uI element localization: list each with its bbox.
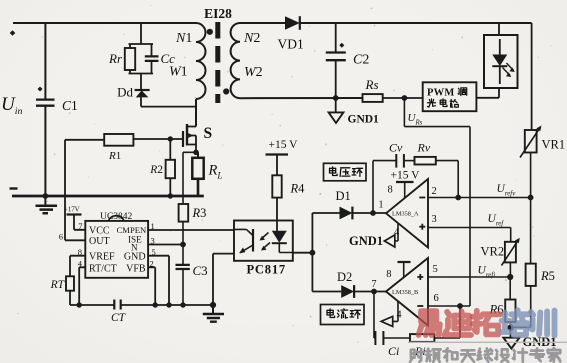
- wire Urefv to R5: [530, 198, 532, 264]
- wire pin2 VFB to bottom rail: [148, 267, 155, 305]
- svg-text:7: 7: [372, 279, 377, 290]
- svg-text:Uin: Uin: [1, 94, 22, 117]
- svg-text:1: 1: [379, 200, 384, 211]
- resistor Rs: [363, 94, 383, 102]
- wire VREF to RT: [70, 256, 85, 277]
- node VFB-rail junction: [153, 302, 158, 307]
- power +15V bar (LM358A): [396, 181, 414, 183]
- wire primary ground rail: [12, 195, 204, 198]
- node Rs sense junction: [402, 95, 408, 101]
- svg-text:3: 3: [432, 214, 437, 225]
- watermark gray text: [410, 349, 424, 362]
- LM358A pin4 ground: [395, 224, 398, 242]
- wire PC817 LED cathode out: [293, 252, 313, 254]
- wire secondary top to VD1: [240, 22, 285, 24]
- capacitor C2: [326, 53, 346, 61]
- svg-text:N1: N1: [175, 31, 192, 46]
- wire rail to VR1: [531, 23, 533, 130]
- svg-text:R2: R2: [149, 164, 163, 176]
- wire R3 to ISEN node: [182, 222, 184, 245]
- svg-text:R1: R1: [108, 150, 121, 162]
- transformer secondary phasing dot: [223, 88, 229, 94]
- svg-text:4: 4: [394, 227, 399, 238]
- wire R6 to ground node: [509, 322, 511, 338]
- wire C2 branch top: [335, 23, 337, 52]
- resistor RT: [66, 276, 74, 290]
- transistor S (MOSFET): [182, 131, 184, 147]
- node pin4-CT junction: [77, 302, 82, 307]
- wire snubber to diode Dd: [140, 74, 142, 91]
- wire top rail from input + to transformer primary: [13, 22, 196, 24]
- voltage loop label box: [324, 163, 367, 181]
- wire pin5 GND to bottom rail: [148, 256, 169, 305]
- wire rail down to LED box: [498, 23, 500, 35]
- wire R4 to PC817 LED: [276, 198, 278, 231]
- voltage loop text: [330, 167, 338, 176]
- svg-text:W2: W2: [244, 65, 263, 80]
- node R2-ground junction: [168, 193, 173, 198]
- wire primary bottom to MOSFET drain: [195, 99, 197, 127]
- wire C3 bottom lead: [182, 269, 184, 305]
- svg-text:OUT: OUT: [89, 236, 110, 247]
- svg-text:RT/CT: RT/CT: [89, 264, 117, 275]
- node feedback junction B: [457, 303, 463, 309]
- svg-text:+15 V: +15 V: [269, 139, 299, 151]
- svg-text:C1: C1: [62, 98, 78, 113]
- node R5/R6 ground junction: [507, 324, 514, 331]
- op-amp U1 UC3842 body: [85, 221, 148, 278]
- svg-text:LM358_A: LM358_A: [392, 211, 419, 218]
- transformer primary winding N1/W1: [196, 23, 206, 99]
- wire source sense to R3: [183, 152, 196, 204]
- resistor RL (sense): [192, 158, 203, 179]
- svg-text:+15 V: +15 V: [391, 170, 421, 182]
- wire D2 to LM358B output: [354, 291, 386, 293]
- wire VR1 to Urefv node: [530, 153, 532, 198]
- resistor VR1 (adjustable): [525, 130, 537, 153]
- svg-text:Ci: Ci: [388, 344, 399, 358]
- capacitor C2 polarity +: [339, 43, 344, 48]
- power +17V bar: [67, 213, 82, 215]
- node optocoupler drive junction: [310, 250, 316, 256]
- svg-text:PWM: PWM: [427, 88, 454, 99]
- capacitor Cc: [145, 56, 159, 61]
- wire Ri to pin6 node: [434, 306, 460, 338]
- node pin7 junction: [371, 289, 377, 295]
- wire pin4 down to CT node: [79, 267, 85, 305]
- svg-text:VD1: VD1: [278, 37, 304, 52]
- svg-text:GND: GND: [124, 252, 146, 263]
- svg-text:2: 2: [432, 186, 437, 197]
- resistor R5: [526, 264, 536, 286]
- svg-text:LM358_B: LM358_B: [392, 289, 418, 296]
- svg-text:Dd: Dd: [117, 85, 133, 100]
- scan background noise: [184, 57, 186, 59]
- svg-text:D2: D2: [337, 270, 352, 284]
- diode D1: [312, 212, 339, 214]
- svg-text:D1: D1: [336, 189, 351, 203]
- LED load box: [484, 35, 518, 88]
- svg-text:GND1: GND1: [348, 114, 380, 126]
- wire R1 to UC3842 OUT: [65, 140, 104, 241]
- svg-text:RT: RT: [50, 279, 66, 291]
- LM358B pin4 ground: [393, 301, 398, 321]
- resistor R4: [272, 175, 281, 197]
- input - terminal mark: [10, 187, 18, 189]
- wire URs sense line: [404, 98, 470, 306]
- current loop text: [327, 309, 335, 318]
- wire +15V to R4: [276, 155, 278, 176]
- svg-text:C3: C3: [193, 263, 208, 278]
- resistor Rr: [125, 48, 135, 70]
- wire timing bottom right segment: [121, 304, 213, 306]
- resistor R1: [104, 134, 133, 146]
- wire drive column to D1/D2: [311, 213, 313, 292]
- capacitor C1: [36, 100, 55, 106]
- wire LED box to PWM box: [476, 88, 499, 98]
- resistor R2: [166, 160, 175, 178]
- svg-text:6: 6: [434, 293, 439, 304]
- power +15V bar (R4): [266, 153, 289, 155]
- wire Rs to PWM box: [383, 97, 423, 99]
- wire pin3 ISEN to sense node: [148, 244, 183, 246]
- current loop label box: [321, 305, 365, 325]
- wire D1 to LM358A output: [352, 212, 386, 214]
- wire Cv to Rv: [404, 160, 415, 162]
- wire gate from R1 to MOSFET: [133, 138, 183, 140]
- LM358B noninverting input +: [417, 274, 423, 280]
- LM358A inverting input -: [419, 197, 425, 199]
- node control ground junction: [210, 302, 216, 308]
- wire secondary bottom to Rs: [240, 97, 363, 99]
- svg-text:N2: N2: [243, 31, 260, 46]
- wire Rv to pin2: [436, 161, 458, 198]
- PC817 LED: [272, 231, 287, 243]
- wire R5 to ground node: [511, 286, 531, 327]
- diode D2: [312, 291, 341, 293]
- watermark red text: [419, 311, 440, 335]
- svg-text:RL: RL: [208, 163, 223, 181]
- svg-text:Rr: Rr: [108, 51, 123, 66]
- svg-text:4: 4: [397, 310, 402, 321]
- diode Dd clamp: [135, 89, 150, 91]
- PWM dimmer text line2: [428, 99, 436, 107]
- ground GND1 under C2: [335, 98, 337, 112]
- wire VD1 to output rail: [300, 22, 532, 24]
- svg-text:R4: R4: [290, 182, 306, 196]
- wire snubber top bar: [129, 43, 154, 45]
- svg-text:R5: R5: [540, 269, 555, 283]
- svg-text:CT: CT: [111, 312, 127, 324]
- node C2/GND1 junction: [333, 95, 339, 101]
- svg-text:W1: W1: [169, 65, 188, 80]
- svg-text:Rs: Rs: [365, 77, 379, 92]
- wire Rr top lead: [129, 44, 131, 48]
- svg-text:+17V: +17V: [64, 207, 80, 214]
- power bar (LM358B pin8): [398, 261, 411, 263]
- diode VD1: [285, 16, 300, 30]
- LM358A noninverting input +: [419, 224, 425, 230]
- wire Dd anode down and right to drain: [141, 97, 196, 106]
- resistor Ri: [410, 334, 434, 342]
- op-amp U3 LM358_A body: [386, 179, 428, 248]
- wire VCC to +17V supply: [74, 215, 85, 230]
- svg-text:C2: C2: [353, 53, 369, 68]
- wire snubber bottom bar: [129, 73, 154, 75]
- node Urefv junction: [528, 195, 534, 201]
- transformer core (dashed): [215, 22, 220, 103]
- PWM dimmer box: [423, 82, 477, 111]
- node ISEN/R3/C3 junction: [180, 242, 186, 248]
- svg-text:6: 6: [59, 232, 63, 242]
- svg-text:VFB: VFB: [126, 264, 146, 275]
- ground GND1 bottom right: [503, 338, 519, 349]
- wire Ci to Ri: [383, 337, 410, 339]
- wire pin6 to URs line: [428, 305, 470, 307]
- watermark blue text: [501, 310, 528, 335]
- capacitor C3: [176, 265, 190, 269]
- LED lamp symbol: [499, 39, 501, 55]
- node MOSFET source junction: [193, 150, 199, 156]
- input + terminal mark: [10, 30, 16, 36]
- PC817 coupling arrows: [261, 233, 269, 240]
- svg-text:VREF: VREF: [89, 252, 115, 263]
- wire Rr bottom lead: [129, 70, 131, 74]
- transformer secondary winding N2/W2: [231, 23, 240, 98]
- capacitor Cv: [373, 161, 396, 213]
- wire pin5 to Urefi: [428, 276, 510, 278]
- wire snubber drop from rail: [140, 23, 142, 44]
- svg-text:Urefv: Urefv: [497, 183, 517, 198]
- svg-text:S: S: [204, 125, 213, 142]
- svg-text:URs: URs: [408, 112, 423, 127]
- node C3-rail junction: [180, 302, 185, 307]
- svg-text:8: 8: [388, 185, 393, 196]
- svg-text:Uref: Uref: [488, 213, 505, 228]
- svg-text:VCC: VCC: [89, 226, 110, 237]
- ground control earth symbol: [212, 305, 214, 313]
- svg-text:VR2: VR2: [481, 245, 505, 259]
- wire PC817 emitter to ground: [213, 254, 234, 305]
- svg-text:Cv: Cv: [389, 141, 403, 155]
- node C1-ground junction: [43, 193, 49, 199]
- wire VR2 to Urefi node: [509, 262, 511, 277]
- svg-text:EI28: EI28: [204, 6, 232, 21]
- svg-text:VR1: VR1: [542, 138, 566, 152]
- wire Urefi to R6: [509, 277, 511, 300]
- capacitor CT: [114, 300, 120, 310]
- wire pin2 to Urefv: [428, 197, 531, 199]
- wire C3 top lead: [182, 245, 184, 265]
- wire pin1 COMP to optocoupler: [148, 229, 234, 231]
- op-amp U4 LM358_B body: [386, 258, 428, 326]
- resistor R6: [505, 300, 515, 322]
- LM358B inverting input -: [417, 305, 423, 307]
- svg-text:PC817: PC817: [247, 263, 286, 277]
- node gate/R2 junction: [168, 136, 173, 141]
- PC817 phototransistor: [252, 229, 254, 252]
- wire timing bottom left segment: [70, 304, 114, 306]
- node pin1 junction: [370, 210, 376, 216]
- svg-text:Rv: Rv: [417, 141, 431, 155]
- wire pin3 Uref to VR2: [428, 228, 511, 242]
- wire C2 branch bottom: [335, 60, 337, 98]
- svg-text:GND1: GND1: [349, 234, 383, 248]
- svg-text:8: 8: [386, 269, 391, 280]
- node Urefi junction: [507, 274, 513, 280]
- op-amp U2 PC817 body: [234, 221, 293, 261]
- ground primary earth symbol: [44, 196, 46, 205]
- resistor Rv: [415, 157, 436, 165]
- transformer primary phasing dot: [207, 29, 213, 35]
- wire Cc top lead: [151, 44, 153, 56]
- capacitor C1 polarity +: [38, 87, 43, 92]
- capacitor Ci feedback: [374, 292, 375, 339]
- node feedback junction A: [455, 195, 461, 201]
- wire Cc bottom lead: [151, 61, 153, 74]
- watermark line: [408, 341, 567, 343]
- resistor VR2 (adjustable): [505, 242, 516, 263]
- svg-text:UC3842: UC3842: [100, 212, 132, 222]
- resistor R3: [179, 204, 189, 222]
- wire C1 branch vertical: [44, 23, 46, 196]
- node GND-rail junction: [166, 302, 171, 307]
- svg-text:5: 5: [433, 264, 438, 275]
- wire RT to bottom rail: [69, 291, 71, 305]
- svg-text:R3: R3: [192, 206, 207, 220]
